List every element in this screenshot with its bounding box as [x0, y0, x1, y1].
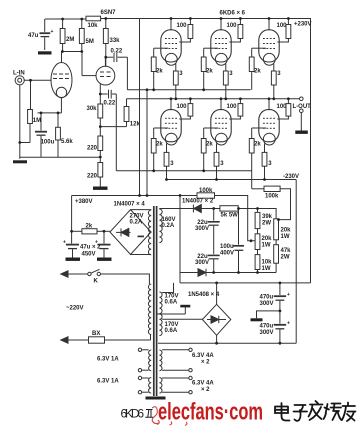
- svg-text:47u: 47u: [28, 33, 39, 39]
- svg-text:3: 3: [220, 161, 224, 167]
- svg-text:450V: 450V: [82, 252, 96, 258]
- svg-text:2k: 2k: [206, 69, 213, 75]
- svg-text:2k: 2k: [254, 69, 261, 75]
- svg-text:2k: 2k: [254, 142, 261, 148]
- svg-text:6SN7: 6SN7: [101, 10, 117, 16]
- svg-text:5k 5W: 5k 5W: [221, 213, 239, 219]
- svg-text:× 2: × 2: [201, 360, 210, 366]
- svg-text:1W: 1W: [262, 243, 271, 249]
- svg-text:10k: 10k: [88, 23, 99, 29]
- svg-text:K: K: [94, 279, 99, 285]
- svg-text:6KD6: 6KD6: [121, 407, 145, 421]
- svg-text:220: 220: [87, 146, 98, 152]
- svg-text:0.22: 0.22: [111, 49, 123, 55]
- svg-text:elecfans·com: elecfans·com: [158, 399, 263, 426]
- svg-text:2W: 2W: [281, 255, 290, 261]
- svg-text:1N4007 × 2: 1N4007 × 2: [182, 199, 214, 205]
- svg-text:100: 100: [227, 104, 238, 110]
- svg-text:5M: 5M: [86, 39, 94, 45]
- svg-text:2k: 2k: [206, 142, 213, 148]
- svg-text:+380V: +380V: [75, 199, 93, 205]
- svg-text:3: 3: [179, 71, 183, 77]
- svg-text:470u: 470u: [260, 324, 274, 330]
- svg-text:~220V: ~220V: [66, 306, 84, 312]
- svg-text:6.3V 4A: 6.3V 4A: [192, 381, 214, 387]
- svg-text:20k: 20k: [281, 228, 292, 234]
- svg-text:3: 3: [268, 161, 272, 167]
- svg-text:1N4007 × 4: 1N4007 × 4: [114, 202, 146, 208]
- svg-text:47u × 2: 47u × 2: [80, 245, 101, 251]
- svg-text:BX: BX: [92, 331, 100, 337]
- svg-text:+: +: [287, 321, 290, 327]
- svg-text:6.3V 1A: 6.3V 1A: [97, 357, 119, 363]
- svg-text:100k: 100k: [265, 194, 279, 200]
- svg-text:+: +: [63, 240, 66, 246]
- svg-text:0.2A: 0.2A: [162, 223, 175, 229]
- svg-text:1W: 1W: [281, 234, 290, 240]
- svg-text:33k: 33k: [110, 38, 121, 44]
- svg-text:20k: 20k: [262, 236, 273, 242]
- svg-text:300V: 300V: [195, 226, 209, 232]
- svg-text:1W: 1W: [262, 266, 271, 272]
- svg-text:+: +: [287, 292, 290, 298]
- svg-text:100k: 100k: [199, 188, 213, 194]
- svg-text:2W: 2W: [262, 221, 271, 227]
- svg-text:0.22: 0.22: [104, 101, 116, 107]
- svg-text:+: +: [51, 29, 54, 35]
- svg-text:10k: 10k: [262, 260, 273, 266]
- svg-text:3: 3: [229, 71, 233, 77]
- svg-text:100: 100: [177, 23, 188, 29]
- svg-text:2k: 2k: [86, 224, 93, 230]
- svg-text:2M: 2M: [66, 37, 74, 43]
- svg-text:1M: 1M: [33, 118, 41, 124]
- svg-text:6.3V 4A: 6.3V 4A: [192, 353, 214, 359]
- svg-text:400V: 400V: [220, 251, 234, 257]
- svg-text:39k: 39k: [262, 214, 273, 220]
- svg-text:100: 100: [277, 23, 288, 29]
- svg-text:12k: 12k: [130, 122, 141, 128]
- svg-text:× 2: × 2: [201, 387, 210, 393]
- svg-text:6.3V 1A: 6.3V 1A: [97, 379, 119, 385]
- svg-text:100u: 100u: [41, 140, 55, 146]
- svg-text:0.2A: 0.2A: [130, 220, 143, 226]
- svg-text:1N5408 × 4: 1N5408 × 4: [188, 292, 220, 298]
- svg-text:100: 100: [177, 104, 188, 110]
- svg-text:L-IN: L-IN: [13, 71, 25, 77]
- svg-text:100: 100: [277, 104, 288, 110]
- svg-text:2k: 2k: [156, 69, 163, 75]
- svg-text:+230V: +230V: [294, 22, 312, 28]
- svg-text:300V: 300V: [260, 301, 274, 307]
- svg-text:300V: 300V: [195, 260, 209, 266]
- svg-text:6KD6 × 6: 6KD6 × 6: [220, 11, 246, 17]
- svg-text:47k: 47k: [281, 248, 292, 254]
- svg-text:100: 100: [227, 23, 238, 29]
- svg-text:300V: 300V: [260, 330, 274, 336]
- svg-text:2k: 2k: [156, 142, 163, 148]
- svg-text:L-OUT: L-OUT: [293, 104, 312, 110]
- svg-text:3: 3: [170, 161, 174, 167]
- svg-text:-230V: -230V: [283, 174, 299, 180]
- svg-text:220: 220: [87, 174, 98, 180]
- svg-text:470u: 470u: [260, 295, 274, 301]
- svg-text:5.6k: 5.6k: [61, 139, 73, 145]
- svg-text:100u: 100u: [220, 244, 234, 250]
- svg-text:0.6A: 0.6A: [165, 328, 178, 334]
- svg-text:30k: 30k: [87, 106, 98, 112]
- svg-text:3: 3: [277, 71, 281, 77]
- svg-text:0.6A: 0.6A: [165, 300, 178, 306]
